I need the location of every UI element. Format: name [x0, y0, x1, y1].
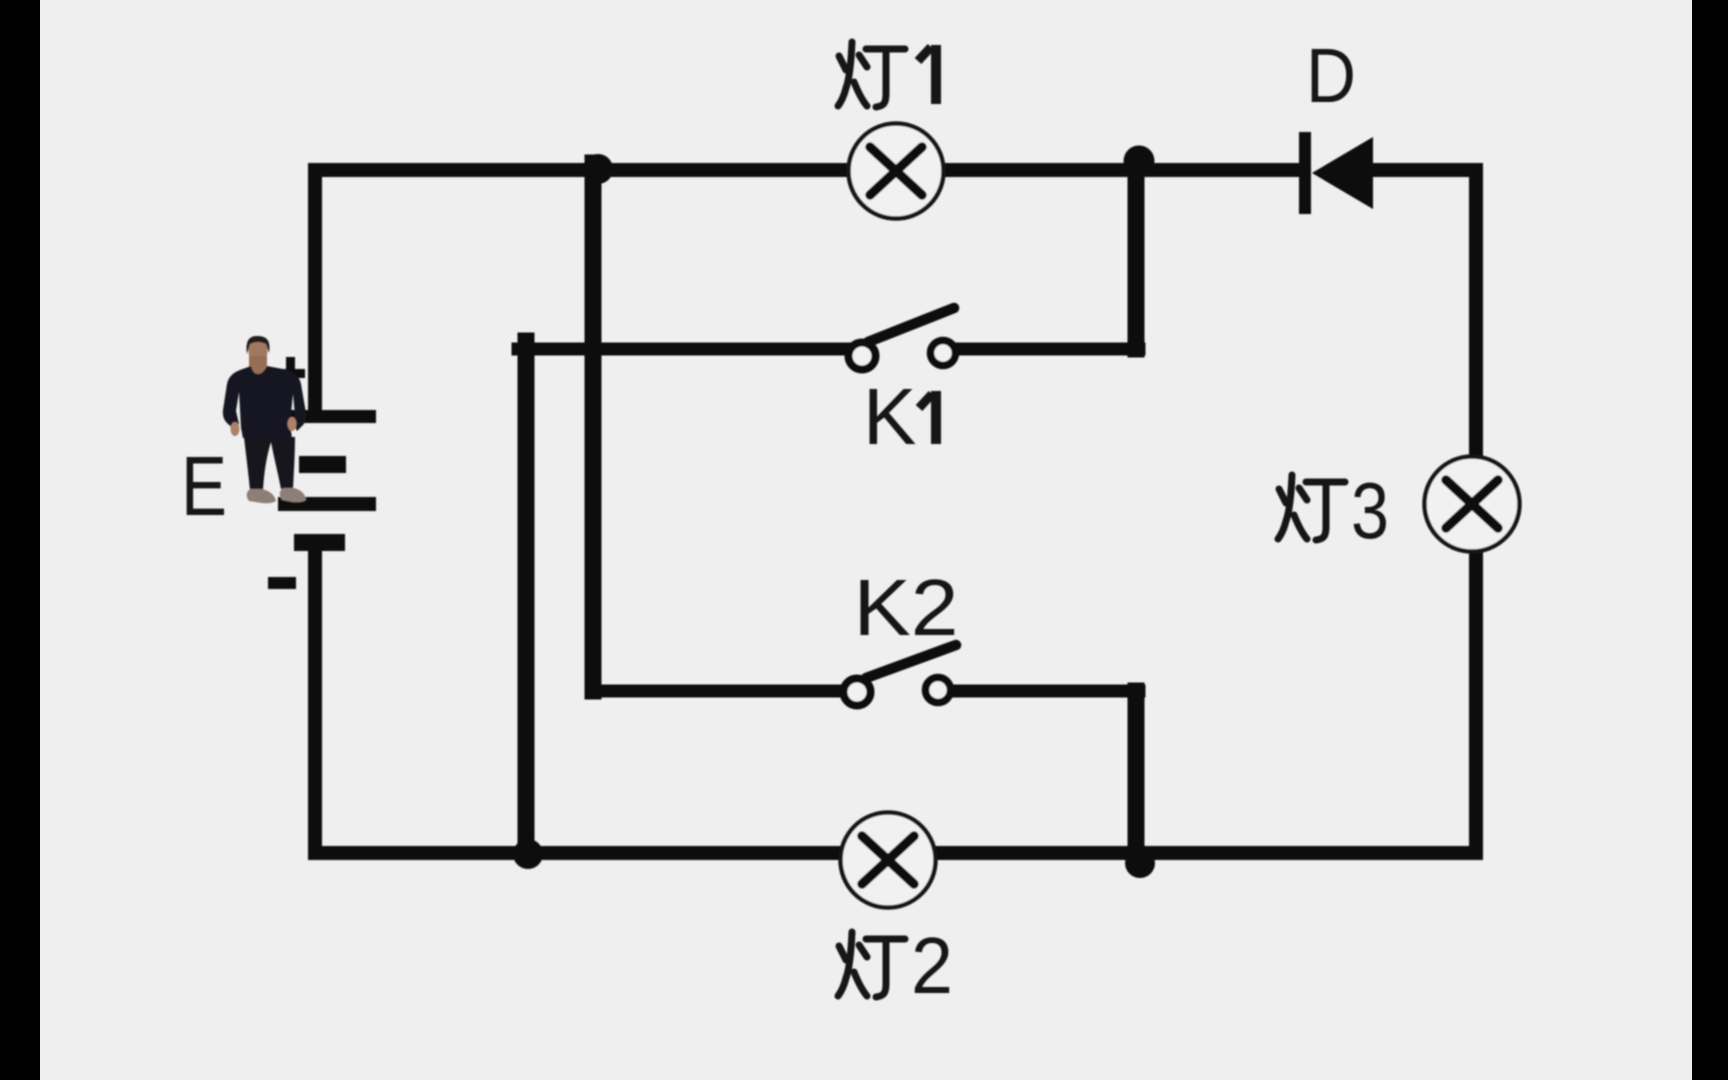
battery E plate 2 (short)	[299, 456, 346, 473]
switch K1 right pivot	[931, 341, 956, 366]
label 灯1: digit 1	[931, 45, 941, 104]
wire: right vertical lower + bottom wire right segment	[937, 551, 1476, 853]
wire: left vertical + top wire left segment (battery + to lamp1)	[315, 170, 849, 409]
wire: vertical from K1 right up to top node B	[1128, 164, 1145, 349]
minus sign label	[268, 577, 296, 589]
person left shoe	[247, 489, 276, 503]
wire: K1 row right horizontal	[958, 343, 1139, 356]
switch K1 blade	[868, 308, 954, 342]
lamp 灯3 symbol	[1425, 457, 1520, 552]
diode D cathode bar	[1299, 132, 1311, 214]
wire: vertical from node A down to K2 row	[585, 163, 602, 691]
wire: K2 row right horizontal	[952, 685, 1139, 698]
switch K2 right pivot	[926, 678, 951, 703]
left pillarbox bar	[0, 0, 40, 1080]
wire: top wire middle segment (lamp1 to diode)	[944, 163, 1300, 177]
wire: vertical from K2 right down to bottom node D	[1128, 691, 1145, 853]
wire: K1 row left horizontal	[518, 343, 846, 356]
wire: bottom wire left segment + battery stem bottom	[315, 551, 839, 853]
battery E plate 1 (long, positive)	[268, 410, 376, 423]
person neck skin	[249, 356, 267, 377]
diode D triangle	[1312, 137, 1373, 209]
plus sign label	[275, 357, 305, 388]
node D junction dot	[1125, 848, 1155, 878]
svg-text:E: E	[181, 439, 227, 533]
lamp 灯1 symbol	[849, 124, 944, 219]
svg-text:D: D	[1306, 33, 1356, 119]
wire: diode to top-right corner + right vertical upper	[1372, 170, 1476, 457]
lamp 灯2 symbol	[841, 813, 936, 908]
person face	[249, 338, 268, 364]
node B junction dot	[1124, 146, 1155, 177]
node C junction dot	[513, 839, 543, 869]
node A junction dot	[583, 154, 613, 184]
switch K1 left pivot	[849, 343, 876, 370]
switch K2 blade	[866, 645, 956, 678]
svg-text:3: 3	[1351, 466, 1389, 555]
battery E plate 4 (short, negative)	[294, 534, 345, 551]
battery E plate 3 (long)	[278, 497, 376, 511]
person torso with arms	[223, 366, 306, 438]
person left hand	[231, 422, 240, 436]
svg-text:K2: K2	[854, 563, 959, 652]
label 灯2: hanzi 灯	[838, 932, 905, 997]
person right hand	[288, 417, 297, 431]
wire: K2 row left horizontal	[592, 685, 841, 698]
svg-text:K: K	[863, 372, 916, 461]
svg-text:2: 2	[911, 921, 953, 1010]
person figure standing by battery	[223, 336, 306, 503]
wire: vertical K1 branch left down to bottom node C	[518, 341, 535, 853]
person right shoe	[280, 488, 306, 502]
switch K2 left pivot	[844, 679, 871, 706]
person hair	[246, 336, 269, 354]
label 灯3: hanzi 灯	[1278, 475, 1345, 540]
person legs	[244, 437, 295, 490]
right pillarbox bar	[1692, 0, 1728, 1080]
label 灯1: hanzi 灯	[838, 42, 905, 107]
